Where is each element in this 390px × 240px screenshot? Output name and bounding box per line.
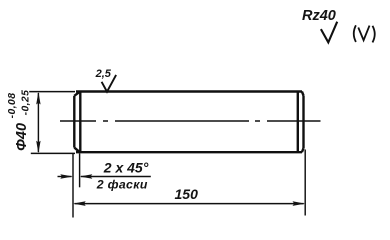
svg-text:Rz40: Rz40 [302,8,336,24]
svg-text:-0,08: -0,08 [7,93,18,119]
svg-text:2 фаски: 2 фаски [96,177,148,191]
svg-text:2,5: 2,5 [95,68,112,80]
svg-text:Φ40: Φ40 [14,123,30,151]
svg-text:-0,25: -0,25 [20,90,31,116]
svg-text:2 x 45°: 2 x 45° [103,159,149,175]
svg-text:150: 150 [175,186,199,202]
